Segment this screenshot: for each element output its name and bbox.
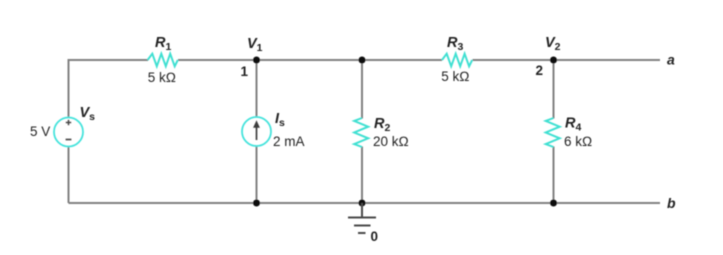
node bottom under Is (253, 200, 260, 207)
resistor R1 (148, 54, 178, 67)
wire R2 branch bottom (361, 147, 363, 204)
voltage source Vs (54, 118, 83, 147)
svg-text:5 kΩ: 5 kΩ (148, 70, 176, 85)
svg-text:6 kΩ: 6 kΩ (564, 134, 592, 149)
wire left bottom segment (68, 147, 70, 203)
svg-text:a: a (667, 52, 675, 68)
resistor R3 (442, 54, 472, 67)
wire top right segment (473, 59, 661, 61)
node V1 dot (253, 57, 260, 64)
current source Is (242, 117, 271, 146)
wire current-source branch top (256, 60, 258, 117)
wire top middle segment (178, 59, 442, 61)
node R2-top junction (359, 57, 366, 64)
svg-text:5 V: 5 V (30, 124, 50, 139)
node bottom ground junction (359, 200, 366, 207)
node V2 dot (550, 57, 557, 64)
svg-text:2 mA: 2 mA (273, 134, 305, 149)
wire current-source branch bottom (256, 146, 258, 204)
wire R4 branch bottom (553, 147, 555, 204)
svg-text:5 kΩ: 5 kΩ (441, 69, 469, 84)
resistor R4 (546, 118, 560, 147)
svg-text:1: 1 (241, 64, 249, 79)
svg-text:2: 2 (536, 63, 544, 78)
svg-text:b: b (667, 195, 676, 211)
wire bottom rail (69, 202, 661, 204)
wire R2 branch top (361, 60, 363, 119)
svg-text:0: 0 (371, 229, 379, 244)
svg-text:20 kΩ: 20 kΩ (373, 134, 409, 149)
node bottom under R4 (550, 200, 557, 207)
resistor R2 (354, 118, 368, 147)
ground (348, 203, 376, 233)
wire R4 branch top (553, 60, 555, 119)
wire top left segment (69, 60, 149, 117)
